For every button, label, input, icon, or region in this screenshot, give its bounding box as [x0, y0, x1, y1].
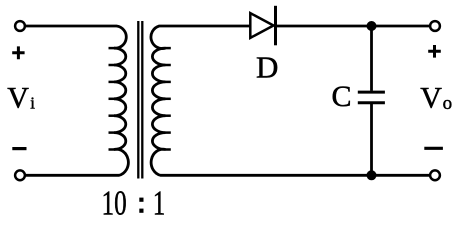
- plus sign (output polarity): [428, 45, 441, 58]
- wire loop tick (secondary): [166, 81, 171, 84]
- capacitor C bottom plate: [358, 101, 385, 104]
- wire loop tick (primary): [109, 64, 115, 67]
- wire loop tick (primary): [109, 114, 115, 117]
- wire loop tick (secondary): [166, 114, 171, 117]
- junction node top (dot): [367, 21, 377, 31]
- svg-text:o: o: [443, 93, 453, 114]
- svg-text:i: i: [30, 94, 35, 113]
- wire loop tick (secondary): [166, 98, 171, 101]
- transformer core line 2: [141, 21, 143, 179]
- colon lower dot: [139, 209, 143, 213]
- wire capacitor bottom plate to bottom junction: [370, 103, 373, 176]
- wire loop tick (primary): [109, 148, 115, 151]
- wire loop tick (primary): [109, 47, 115, 50]
- svg-text:V: V: [7, 81, 29, 114]
- diode D cathode bar: [274, 6, 277, 46]
- wire loop tick (secondary): [166, 131, 171, 134]
- minus sign (output polarity): [424, 147, 443, 150]
- wire cathode to top-right terminal: [276, 25, 431, 28]
- plus sign (input polarity): [12, 46, 24, 59]
- wire loop tick (primary): [109, 98, 115, 101]
- wire + transformer primary winding L1 (left coil with top and bottom leads): [25, 26, 128, 175]
- capacitor C top plate: [358, 91, 385, 94]
- label 1 (turns ratio): [153, 184, 166, 223]
- wire loop tick (primary): [109, 81, 115, 84]
- wire junction to capacitor top plate: [370, 26, 373, 91]
- transformer secondary winding L2 (right coil with top lead to diode and bottom lead to output): [151, 26, 430, 175]
- terminal top-right (Vo +): [430, 21, 440, 31]
- terminal bottom-left (Vi -): [15, 170, 25, 180]
- svg-text:10: 10: [102, 184, 127, 223]
- diode D triangle (anode): [250, 13, 273, 38]
- wire loop tick (secondary): [166, 47, 171, 50]
- label 10 (turns ratio): [102, 184, 127, 223]
- transformer core line 1: [137, 21, 139, 179]
- wire loop tick (primary): [109, 131, 115, 134]
- terminal bottom-right (Vo -): [430, 170, 440, 180]
- svg-text:V: V: [420, 81, 442, 114]
- wire loop tick (secondary): [166, 148, 171, 151]
- svg-text:D: D: [256, 50, 278, 85]
- svg-text:C: C: [332, 80, 352, 113]
- colon upper dot: [139, 198, 143, 202]
- junction node bottom (dot): [367, 170, 377, 180]
- wire loop tick (secondary): [166, 64, 171, 67]
- minus sign (input polarity): [12, 147, 26, 150]
- svg-text:1: 1: [153, 184, 166, 223]
- terminal top-left (Vi +): [15, 21, 25, 31]
